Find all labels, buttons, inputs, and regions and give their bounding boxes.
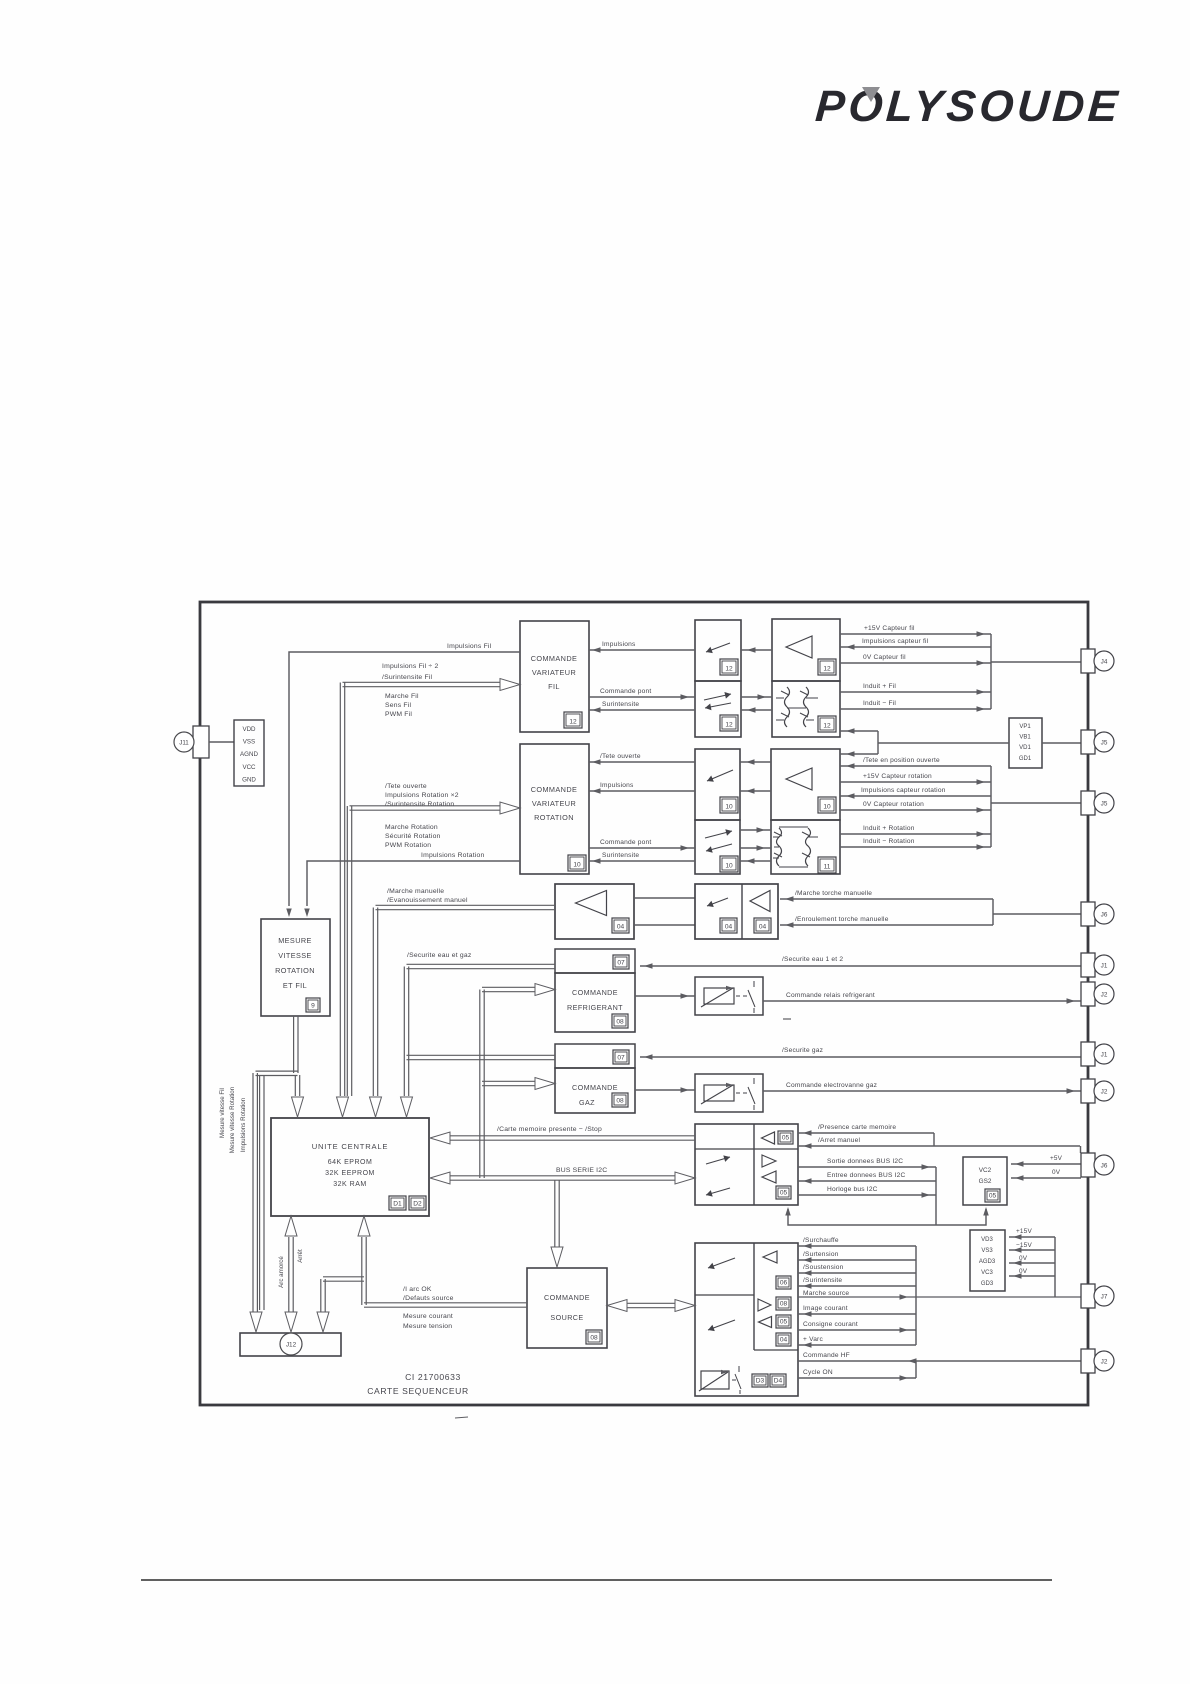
svg-text:Impulsions Rotation: Impulsions Rotation <box>240 1097 247 1152</box>
connector J2 (right edge) <box>1081 982 1095 1006</box>
svg-text:GS2: GS2 <box>979 1178 992 1185</box>
svg-text:J6: J6 <box>1101 911 1108 918</box>
svg-text:COMMANDE: COMMANDE <box>531 654 578 663</box>
svg-text:05: 05 <box>989 1192 997 1199</box>
svg-text:04: 04 <box>759 923 767 930</box>
junction source bracket <box>915 1246 917 1345</box>
svg-text:GD3: GD3 <box>981 1281 994 1287</box>
svg-text:12: 12 <box>569 718 577 725</box>
svg-text:MESURE: MESURE <box>278 936 312 945</box>
svg-text:Sens Fil: Sens Fil <box>385 702 411 709</box>
junction bracket to J6 <box>992 899 994 925</box>
svg-text:D4: D4 <box>774 1377 783 1384</box>
svg-text:12: 12 <box>823 722 831 729</box>
svg-text:/Enroulement torche manuelle: /Enroulement torche manuelle <box>795 916 889 923</box>
svg-text:/Surtension: /Surtension <box>803 1251 839 1258</box>
power box VD3 VS3 AGD3 VC3 GD3 <box>970 1230 1005 1291</box>
svg-text:VS3: VS3 <box>981 1248 993 1254</box>
svg-text:GD1: GD1 <box>1019 756 1032 762</box>
svg-text:COMMANDE: COMMANDE <box>572 988 618 997</box>
footer rule <box>141 1579 1052 1581</box>
block torche opto 04/04 <box>695 884 778 939</box>
svg-text:/I arc OK: /I arc OK <box>403 1286 432 1293</box>
svg-text:J1: J1 <box>1101 1051 1108 1058</box>
svg-text:10: 10 <box>573 861 581 868</box>
svg-text:05: 05 <box>782 1134 790 1141</box>
svg-text:VP1: VP1 <box>1019 724 1031 730</box>
svg-text:J7: J7 <box>1101 1293 1108 1300</box>
svg-text:08: 08 <box>616 1018 624 1025</box>
svg-text:GAZ: GAZ <box>579 1098 595 1107</box>
stray mark below frame <box>455 1417 468 1418</box>
svg-text:08: 08 <box>590 1334 598 1341</box>
svg-text:/Arret manuel: /Arret manuel <box>818 1137 861 1144</box>
svg-text:/Tete ouverte: /Tete ouverte <box>600 753 641 760</box>
amp block 04 (torche manuelle) <box>555 884 634 939</box>
connector J1 (right edge) <box>1081 1042 1095 1066</box>
connector J4 (right edge) <box>1081 649 1095 673</box>
svg-text:Commande pont: Commande pont <box>600 688 651 695</box>
block COMMANDE GAZ 08 <box>555 1068 635 1113</box>
svg-text:/Surintensite Rotation: /Surintensite Rotation <box>385 801 454 808</box>
bus branch to J12 (arret) <box>323 1276 364 1278</box>
bus I2C to COMMANDE SOURCE <box>554 1180 556 1247</box>
power box VP1 VB1 VD1 GD1 <box>1009 718 1042 768</box>
svg-text:Arrêt: Arrêt <box>297 1249 304 1263</box>
svg-text:/Tete en position ouverte: /Tete en position ouverte <box>863 757 940 764</box>
svg-text:Impulsions: Impulsions <box>602 641 636 648</box>
svg-text:/Securite eau et gaz: /Securite eau et gaz <box>407 952 472 959</box>
svg-text:Marche source: Marche source <box>803 1290 849 1297</box>
svg-text:VSS: VSS <box>243 739 255 746</box>
svg-text:/Presence carte memoire: /Presence carte memoire <box>818 1124 896 1131</box>
svg-text:AGND: AGND <box>240 751 258 758</box>
power pin box VDD VSS AGND VCC GND <box>234 720 264 786</box>
relay refrigerant <box>695 977 763 1015</box>
svg-text:Induit − Rotation: Induit − Rotation <box>863 838 915 845</box>
svg-text:0V Capteur fil: 0V Capteur fil <box>863 654 906 661</box>
connector J1 (right edge) <box>1081 953 1095 977</box>
block interface source 06/08/05/04 D3 D4 <box>695 1243 798 1396</box>
svg-text:Marche Rotation: Marche Rotation <box>385 824 438 831</box>
svg-text:SOURCE: SOURCE <box>550 1313 583 1322</box>
svg-text:07: 07 <box>617 1054 625 1061</box>
svg-text:04: 04 <box>617 923 625 930</box>
svg-text:Impulsions Fil: Impulsions Fil <box>447 643 492 650</box>
connector J2 (right edge) <box>1081 1079 1095 1103</box>
amp block 10 (rotation capteur) <box>771 749 840 820</box>
svg-text:ET FIL: ET FIL <box>283 981 307 990</box>
POLYSOUDE logo <box>814 82 1123 131</box>
svg-text:/Surintensite: /Surintensite <box>803 1277 842 1284</box>
svg-text:Impulsions: Impulsions <box>600 782 634 789</box>
svg-text:BUS SERIE I2C: BUS SERIE I2C <box>556 1167 607 1174</box>
connector J2 (right edge) <box>1081 1349 1095 1373</box>
svg-text:GND: GND <box>242 776 256 783</box>
junction VD3 bracket to J7 line <box>1054 1237 1056 1297</box>
svg-text:08: 08 <box>780 1300 788 1307</box>
bus branch to securite gaz strip <box>407 1054 556 1056</box>
bridge block 12 (fil induit) <box>772 681 840 737</box>
svg-text:Induit + Rotation: Induit + Rotation <box>863 825 915 832</box>
bus UNITE CENTRALE to J12 (arc amorce) <box>285 1216 297 1236</box>
svg-text:COMMANDE: COMMANDE <box>572 1083 618 1092</box>
svg-text:D1: D1 <box>393 1200 402 1207</box>
relay electrovanne gaz <box>695 1074 763 1112</box>
svg-text:0V: 0V <box>1052 1169 1061 1176</box>
svg-text:/Surintensite Fil: /Surintensite Fil <box>382 674 433 681</box>
svg-text:VC2: VC2 <box>979 1167 992 1174</box>
bridge block 11 (rotation induit) <box>771 820 840 874</box>
svg-text:0V Capteur rotation: 0V Capteur rotation <box>863 801 924 808</box>
svg-text:11: 11 <box>824 863 831 870</box>
svg-text:Impulsions capteur rotation: Impulsions capteur rotation <box>861 787 946 794</box>
svg-text:+15V Capteur fil: +15V Capteur fil <box>864 625 915 632</box>
block securite strip 07 (gaz) <box>555 1044 635 1068</box>
svg-text:REFRIGERANT: REFRIGERANT <box>567 1003 623 1012</box>
svg-text:10: 10 <box>823 803 831 810</box>
opto block 12 (fil impulsions) <box>695 620 741 681</box>
svg-text:Cycle ON: Cycle ON <box>803 1369 833 1376</box>
bus MESURE to J12 / UNITE <box>293 1016 295 1073</box>
svg-text:/Tete ouverte: /Tete ouverte <box>385 783 427 790</box>
svg-text:ROTATION: ROTATION <box>534 813 574 822</box>
svg-text:+ Varc: + Varc <box>803 1336 823 1343</box>
svg-text:Mesure courant: Mesure courant <box>403 1313 453 1320</box>
svg-text:12: 12 <box>725 665 733 672</box>
svg-text:VC3: VC3 <box>981 1270 993 1276</box>
svg-text:ROTATION: ROTATION <box>275 966 315 975</box>
svg-text:12: 12 <box>823 665 831 672</box>
svg-text:J12: J12 <box>286 1342 297 1349</box>
svg-text:Impulsions capteur fil: Impulsions capteur fil <box>862 638 929 645</box>
svg-text:J2: J2 <box>1101 991 1108 998</box>
block COMMANDE REFRIGERANT 08 <box>555 973 635 1032</box>
svg-text:J4: J4 <box>1101 658 1108 665</box>
svg-text:Sécurité Rotation: Sécurité Rotation <box>385 833 441 840</box>
svg-text:/Securite gaz: /Securite gaz <box>782 1047 823 1054</box>
svg-text:VB1: VB1 <box>1019 735 1031 741</box>
svg-text:32K RAM: 32K RAM <box>333 1181 366 1188</box>
svg-text:Consigne courant: Consigne courant <box>803 1321 858 1328</box>
svg-text:AGD3: AGD3 <box>979 1259 996 1265</box>
block COMMANDE VARIATEUR ROTATION U10 <box>520 744 589 874</box>
diagram outer frame <box>200 602 1088 1405</box>
svg-text:VARIATEUR: VARIATEUR <box>532 668 576 677</box>
bus COMMANDE SOURCE to interface (bidirectional) <box>618 1302 684 1304</box>
svg-text:Arc amorcé: Arc amorcé <box>278 1256 285 1288</box>
wire feedback to VC2 <box>788 1209 986 1225</box>
svg-text:Mesure tension: Mesure tension <box>403 1323 452 1330</box>
svg-text:VD1: VD1 <box>1019 745 1031 751</box>
relay HF (source) <box>701 1371 729 1389</box>
svg-text:/Soustension: /Soustension <box>803 1264 844 1271</box>
opto block 10 (rotation commande pont) <box>695 820 740 874</box>
block COMMANDE VARIATEUR FIL U12 <box>520 621 589 732</box>
wire amp04 to opto04 (top) <box>634 897 695 899</box>
svg-text:PWM Fil: PWM Fil <box>385 711 412 718</box>
junction bracket to J3/J5 <box>990 766 992 847</box>
svg-text:08: 08 <box>616 1097 624 1104</box>
svg-text:CARTE SEQUENCEUR: CARTE SEQUENCEUR <box>367 1386 469 1396</box>
svg-text:/Defauts source: /Defauts source <box>403 1295 454 1302</box>
block securite strip 07 (eau) <box>555 949 635 973</box>
svg-text:32K EEPROM: 32K EEPROM <box>325 1170 375 1177</box>
svg-text:10: 10 <box>725 803 733 810</box>
svg-text:Horloge bus I2C: Horloge bus I2C <box>827 1186 878 1193</box>
svg-text:Mesure vitesse Fil: Mesure vitesse Fil <box>219 1088 226 1138</box>
svg-text:J5: J5 <box>1101 800 1108 807</box>
connector J6 (right edge) <box>1081 1153 1095 1177</box>
svg-text:04: 04 <box>780 1336 788 1343</box>
svg-text:/Evanouissement manuel: /Evanouissement manuel <box>387 897 468 904</box>
svg-text:J11: J11 <box>179 739 189 746</box>
svg-text:05: 05 <box>780 1318 788 1325</box>
bus commande refrigerant/gaz from I2C <box>479 990 481 1179</box>
svg-text:Image courant: Image courant <box>803 1305 848 1312</box>
svg-text:/Securite eau 1 et 2: /Securite eau 1 et 2 <box>782 956 843 963</box>
power box VC2 GS2 05 <box>963 1157 1007 1205</box>
wire amp04 to opto04 (bottom) <box>634 924 695 926</box>
svg-text:+5V: +5V <box>1050 1155 1063 1162</box>
svg-text:J6: J6 <box>1101 1162 1108 1169</box>
connector J11 (left edge) <box>193 726 209 758</box>
svg-text:Impulsions Fil ÷ 2: Impulsions Fil ÷ 2 <box>382 663 438 670</box>
svg-text:Induit − Fil: Induit − Fil <box>863 700 896 707</box>
svg-text:Surintensite: Surintensite <box>602 701 639 708</box>
amp block 12 (fil capteur) <box>772 619 840 681</box>
svg-text:POLYSOUDE: POLYSOUDE <box>814 82 1123 131</box>
svg-text:VDD: VDD <box>242 726 256 733</box>
svg-text:D2: D2 <box>413 1200 422 1207</box>
svg-text:Commande relais refrigerant: Commande relais refrigerant <box>786 992 875 999</box>
connector J5 (right edge) <box>1081 791 1095 815</box>
svg-text:Impulsions Rotation ×2: Impulsions Rotation ×2 <box>385 792 459 799</box>
svg-text:/Carte memoire presente −: /Carte memoire presente − /Stop <box>497 1126 602 1133</box>
svg-text:/Marche manuelle: /Marche manuelle <box>387 888 444 895</box>
svg-text:J2: J2 <box>1101 1358 1108 1365</box>
svg-text:12: 12 <box>725 721 733 728</box>
svg-text:COMMANDE: COMMANDE <box>544 1293 590 1302</box>
connector box J12 <box>240 1333 341 1356</box>
svg-text:04: 04 <box>725 923 733 930</box>
svg-text:Commande HF: Commande HF <box>803 1352 850 1359</box>
svg-text:64K EPROM: 64K EPROM <box>328 1159 373 1166</box>
svg-text:Marche Fil: Marche Fil <box>385 693 419 700</box>
opto block 10 (rotation impulsions) <box>695 749 740 820</box>
svg-text:Sortie donnees BUS I2C: Sortie donnees BUS I2C <box>827 1158 903 1165</box>
junction bracket to J4 <box>990 634 992 709</box>
wire opto-bridge rotation <box>740 829 771 831</box>
stray mark <box>783 1018 791 1020</box>
svg-text:J2: J2 <box>1101 1088 1108 1095</box>
svg-text:05: 05 <box>780 1189 788 1196</box>
svg-text:Commande pont: Commande pont <box>600 839 651 846</box>
svg-text:9: 9 <box>311 1002 315 1009</box>
svg-text:Commande electrovanne gaz: Commande electrovanne gaz <box>786 1082 877 1089</box>
svg-text:07: 07 <box>617 959 625 966</box>
svg-text:UNITE CENTRALE: UNITE CENTRALE <box>312 1142 389 1151</box>
svg-text:J5: J5 <box>1101 739 1108 746</box>
svg-text:VD3: VD3 <box>981 1237 993 1243</box>
connector J6 (right edge) <box>1081 902 1095 926</box>
wire J11 to power box <box>209 741 234 743</box>
svg-text:COMMANDE: COMMANDE <box>531 785 578 794</box>
svg-text:+15V: +15V <box>1016 1228 1032 1235</box>
svg-text:Mesure vitesse Rotation: Mesure vitesse Rotation <box>229 1086 236 1153</box>
wire commande refrigerant to relay <box>635 995 695 997</box>
svg-text:Surintensite: Surintensite <box>602 852 639 859</box>
svg-text:Induit + Fil: Induit + Fil <box>863 683 896 690</box>
svg-text:/Surchauffe: /Surchauffe <box>803 1237 839 1244</box>
svg-text:+15V Capteur rotation: +15V Capteur rotation <box>863 773 932 780</box>
wire commande gaz to relay <box>635 1089 695 1091</box>
svg-text:FIL: FIL <box>548 682 560 691</box>
svg-text:VARIATEUR: VARIATEUR <box>532 799 576 808</box>
junction I2C bracket down to VC2 line <box>935 1167 937 1225</box>
svg-text:−15V: −15V <box>1016 1242 1032 1249</box>
wire bridge power to VP1 and J5 <box>840 730 878 732</box>
svg-text:Impulsions Rotation: Impulsions Rotation <box>421 852 485 859</box>
bus UNITE CENTRALE to COMMANDE SOURCE <box>358 1216 370 1236</box>
svg-text:/Marche torche manuelle: /Marche torche manuelle <box>795 890 872 897</box>
svg-text:CI 21700633: CI 21700633 <box>405 1372 461 1382</box>
opto block 12 (fil commande pont) <box>695 681 741 737</box>
block MESURE VITESSE ROTATION ET FIL 9 <box>261 919 330 1016</box>
svg-text:PWM Rotation: PWM Rotation <box>385 842 431 849</box>
svg-text:J1: J1 <box>1101 962 1108 969</box>
svg-text:06: 06 <box>780 1279 788 1286</box>
connector J5 (right edge) <box>1081 730 1095 754</box>
connector J7 (right edge) <box>1081 1284 1095 1308</box>
svg-text:D3: D3 <box>756 1377 765 1384</box>
svg-text:10: 10 <box>725 862 733 869</box>
block UNITE CENTRALE D1 D2 <box>271 1118 429 1216</box>
svg-text:VITESSE: VITESSE <box>278 951 312 960</box>
svg-text:VCC: VCC <box>242 764 256 771</box>
block COMMANDE SOURCE 08 <box>527 1268 607 1348</box>
block interface bus I2C 05 <box>695 1124 798 1205</box>
svg-text:Entree donnees BUS I2C: Entree donnees BUS I2C <box>827 1172 905 1179</box>
